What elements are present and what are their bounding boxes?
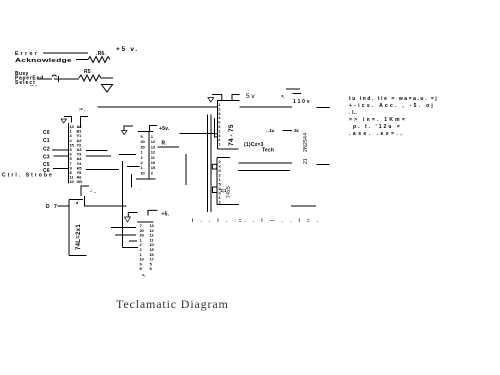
wire U1 out row2 — [86, 155, 111, 157]
resistor R5 — [79, 75, 101, 81]
IC U5 left edge — [216, 158, 218, 205]
wire D7 to U2 — [58, 205, 70, 207]
wire U5 out row2 — [238, 170, 290, 172]
vertical bus 2 — [210, 115, 212, 213]
svg-text:R.: R. — [162, 141, 168, 147]
IC U3 center line — [148, 132, 150, 180]
vertical bus 1 — [207, 115, 209, 213]
IC U6 left pins — [140, 223, 145, 271]
wire U6 in row1 — [111, 227, 136, 229]
svg-text:'2;1: '2;1 — [220, 188, 227, 193]
diode D1 — [52, 75, 64, 82]
IC U2 left edge — [68, 200, 70, 256]
wire select to diode — [37, 78, 52, 80]
IC U3 left pins — [141, 134, 146, 175]
svg-text:.: . — [140, 186, 141, 191]
ground bracket U6 — [128, 213, 137, 218]
IC U6 right pins — [150, 223, 155, 271]
svg-text:. .1v.: . .1v. — [266, 128, 274, 133]
resistor R6 — [88, 57, 110, 63]
wire notch vertical U4 — [214, 118, 216, 134]
battery plate long — [286, 88, 300, 90]
ground bracket U3 — [124, 126, 133, 131]
svg-text:R5: R5 — [84, 69, 91, 75]
IC U5 pins — [219, 159, 222, 205]
svg-text:C2: C2 — [43, 147, 50, 153]
IC U5 top edge — [217, 157, 230, 159]
svg-text:C1: C1 — [43, 138, 50, 144]
svg-text::= .: := . — [79, 107, 85, 112]
svg-text:GD: GD — [77, 179, 83, 184]
IC U4 pins — [218, 102, 221, 147]
svg-text:C0: C0 — [43, 130, 50, 136]
wire net A right — [240, 106, 293, 108]
svg-text:(1)Cx=3: (1)Cx=3 — [244, 142, 264, 148]
svg-text:1 1 0 v: 1 1 0 v — [293, 99, 310, 105]
wire into U3 row — [119, 154, 136, 156]
svg-text:-- -: -- - — [30, 83, 37, 89]
svg-text:-.: -. — [94, 189, 96, 194]
ground bracket U4 — [212, 95, 222, 101]
ground — [102, 85, 113, 93]
svg-text:74 - 75: 74 - 75 — [228, 124, 235, 146]
svg-text:74L=2x1: 74L=2x1 — [76, 224, 82, 250]
ground symbol U4 — [208, 98, 214, 103]
IC U4 bottom edge — [218, 148, 239, 150]
IC U5 bottom edge — [217, 203, 239, 205]
wire to U4 notch — [180, 132, 215, 134]
svg-text:=.: =. — [281, 94, 284, 99]
IC U3 right pins — [151, 134, 156, 175]
wire Acknowledge to R6 — [76, 59, 88, 61]
svg-text:74x5: 74x5 — [226, 186, 232, 198]
gnd bracket U1 bottom — [81, 186, 89, 196]
svg-text:21: 21 — [303, 158, 309, 164]
wire vcc stub U2 — [84, 196, 86, 206]
IC U1 left edge — [68, 123, 70, 184]
wire C3 to U1 — [54, 155, 69, 157]
wire into U3 lower — [127, 166, 140, 168]
wire U6 in row3 — [129, 240, 137, 242]
IC U3 top edge — [138, 131, 153, 133]
wire main horizontal net A — [98, 106, 218, 108]
svg-text:2x: 2x — [294, 128, 299, 133]
svg-text:5 v: 5 v — [246, 93, 255, 100]
svg-text:+5v.: +5v. — [159, 126, 170, 132]
wire vertical mid — [185, 154, 187, 185]
svg-text:+5.: +5. — [162, 212, 170, 218]
wire vertical bus down — [122, 161, 124, 248]
wire U5 out row1 — [239, 162, 293, 164]
wire diode to R5 — [64, 78, 79, 80]
wire stub right top — [317, 107, 331, 109]
IC U6 top edge — [137, 221, 154, 223]
ground symbol U3 — [122, 131, 128, 135]
IC U2 74LS241 top edge — [69, 199, 83, 201]
battery plate short — [293, 93, 302, 95]
notch pin U5 a — [212, 164, 217, 169]
svg-text:Ctrl. Strobe: Ctrl. Strobe — [2, 173, 52, 179]
wire C6 to U1 — [53, 168, 69, 170]
notch pin U4 — [215, 134, 218, 137]
wire small mid — [283, 130, 293, 132]
wire U1 out row1 — [86, 150, 108, 152]
svg-text:Teclamatic Diagram: Teclamatic Diagram — [116, 297, 229, 311]
svg-text:C3: C3 — [43, 155, 50, 161]
svg-text:Tech: Tech — [262, 148, 274, 154]
svg-text:2N2544: 2N2544 — [303, 133, 309, 152]
vcc bracket U6 — [148, 210, 158, 215]
wire U1 out row3 — [86, 169, 119, 171]
wire U2 output long — [84, 205, 127, 207]
svg-text:=.: =. — [142, 273, 145, 278]
IC U2 bottom edge — [69, 255, 87, 257]
IC U1 pin names — [77, 124, 83, 184]
vcc bracket U4 — [232, 95, 240, 101]
IC U4 top edge — [218, 100, 240, 102]
wire stub bottom right — [291, 205, 316, 207]
svg-text:.R6.: .R6. — [96, 51, 106, 57]
svg-text:tu ind. tie = wa=a.u. =j: tu ind. tie = wa=a.u. =j — [349, 96, 437, 102]
wire U3 out — [158, 146, 180, 148]
vcc bracket U3 — [150, 126, 158, 132]
vcc bracket U1 — [81, 117, 89, 129]
notch pin U5 b — [213, 187, 218, 193]
IC U4 left edge — [217, 101, 219, 150]
ground bracket U1 — [64, 117, 72, 123]
IC U3 bottom edge — [136, 178, 156, 180]
svg-text:. l..: . l.. — [349, 110, 357, 116]
wire C2 to U1 — [52, 149, 69, 151]
wire R5 to ground — [101, 77, 113, 79]
svg-text:Acknowledge: Acknowledge — [15, 58, 72, 64]
wire U6 in row2 — [115, 234, 136, 236]
wire elbow into U5 — [123, 247, 139, 249]
IC U1 pin numbers — [70, 124, 75, 184]
ground symbol U6 — [125, 217, 131, 222]
wire Error to R6 — [43, 52, 88, 54]
wire stub below U3 — [130, 174, 132, 188]
wire stub right mid — [317, 164, 330, 166]
ground symbol U1 — [61, 119, 67, 123]
